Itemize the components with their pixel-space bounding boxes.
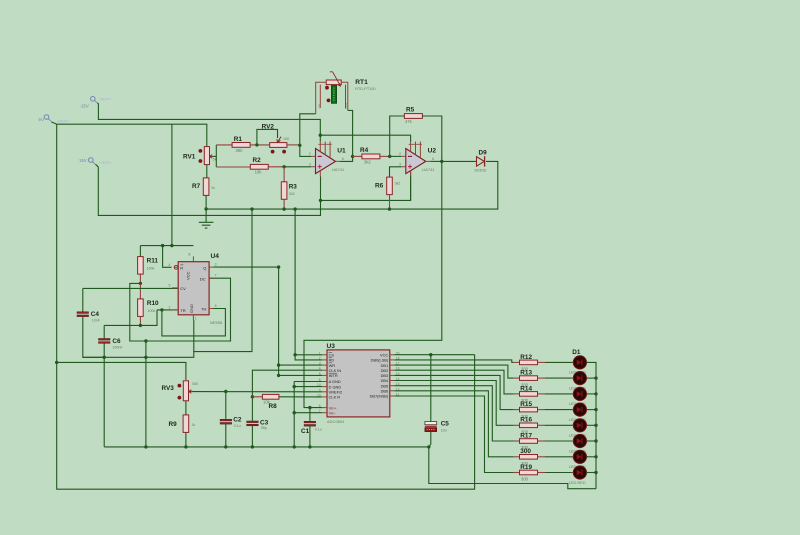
wire ladder row 1 left stub	[513, 361, 520, 363]
wire U2 plus input	[390, 167, 402, 178]
svg-text:RV1: RV1	[183, 154, 196, 161]
wire cathode bus segment 4	[595, 410, 597, 426]
wire C3 bottom lead	[251, 426, 253, 447]
wire VCC row	[394, 354, 474, 356]
wire R2 right to U1 plus	[268, 166, 285, 168]
capacitor C2	[220, 416, 242, 428]
wire R13 lead right	[538, 377, 546, 379]
junction R8/C3 on clock column	[251, 395, 254, 398]
wire R17 to LED 6	[545, 440, 573, 442]
wire ladder row 2 left stub	[513, 377, 520, 379]
svg-text:2: 2	[399, 152, 401, 156]
wire ladder row 6 left stub	[513, 440, 520, 442]
wire cathode bus segment 5	[595, 425, 597, 441]
wire CS to RD jog	[295, 355, 322, 360]
wire R16 lead right	[538, 424, 546, 426]
wire 5V tap to RV3	[57, 362, 186, 380]
wire analog ground column	[293, 382, 295, 447]
wire DB6 to ladder row 7	[394, 391, 513, 457]
resistor R7	[192, 178, 215, 196]
svg-text:R1: R1	[234, 136, 243, 143]
wire A GND line	[294, 381, 322, 383]
wire R12 to LED 1	[545, 361, 573, 363]
svg-text:3: 3	[309, 163, 311, 167]
wire INTR line	[279, 374, 323, 376]
svg-text:4: 4	[319, 367, 321, 371]
wire DB4 to ladder row 5	[394, 381, 513, 426]
wire R10 bottom to C6 column	[104, 324, 140, 326]
wire 5V rail horizontal	[51, 122, 207, 147]
wire R3 bottom	[283, 199, 285, 209]
svg-text:300: 300	[520, 448, 531, 455]
capacitor C6	[99, 338, 124, 350]
svg-text:3k2: 3k2	[364, 159, 371, 164]
wire R16 to LED 5	[545, 424, 573, 426]
wire DB7 to ladder row 8	[394, 396, 513, 473]
wire 5V to 555 supply	[171, 124, 173, 245]
wire RV1 bottom to R7	[206, 165, 208, 178]
junction cathode bus row 7	[594, 455, 597, 458]
svg-text:5V: 5V	[39, 117, 44, 122]
svg-text:100nF: 100nF	[112, 346, 123, 350]
potentiometer RV1	[183, 147, 217, 165]
wire R8 left lead	[252, 396, 262, 398]
svg-text:R13: R13	[520, 370, 532, 377]
resistor R10	[138, 299, 159, 317]
junction bus C2	[224, 445, 227, 448]
LED D2 LED-RED	[569, 372, 588, 391]
capacitor C5 electrolytic	[425, 421, 449, 433]
resistor R19 (ladder row 8)	[520, 464, 538, 482]
junction cathode bus row 5	[594, 424, 597, 427]
resistor R13 (ladder row 2)	[520, 370, 538, 388]
wire R10 bottom	[139, 316, 141, 325]
junction cathode bus row 8	[594, 471, 597, 474]
junction bus AGND col	[293, 445, 296, 448]
junction cathode bus row 2	[594, 376, 597, 379]
wire gnd drop to bus	[145, 341, 147, 447]
wire D9 to ground loop	[206, 161, 498, 209]
svg-text:10k: 10k	[255, 170, 263, 175]
IC U4 NE555	[169, 252, 224, 325]
svg-text:R7: R7	[192, 183, 201, 190]
wire LED 2 cathode to bus	[587, 377, 597, 379]
svg-text:2: 2	[309, 152, 311, 156]
wire C5 bottom lead	[429, 432, 431, 447]
LED D3 LED-RED	[569, 387, 588, 406]
wire DB1 to ladder row 2	[394, 365, 513, 378]
wire R10 top	[139, 283, 141, 298]
svg-text:R: R	[180, 266, 183, 271]
wire op-amp V- rail	[321, 171, 411, 201]
svg-text:6: 6	[215, 304, 217, 308]
resistor R4	[360, 147, 380, 164]
svg-text:U4: U4	[211, 253, 220, 260]
svg-text:6: 6	[342, 157, 344, 161]
svg-text:C4: C4	[91, 311, 100, 318]
svg-text:1k: 1k	[211, 186, 215, 190]
svg-text:LED-RED: LED-RED	[569, 481, 586, 485]
svg-text:R9: R9	[169, 421, 178, 428]
svg-text:R2: R2	[253, 157, 262, 164]
wire DB2 to ladder row 3	[394, 370, 513, 394]
junction C5 tap on VCC	[429, 353, 432, 356]
svg-text:2k2: 2k2	[289, 192, 295, 196]
wire node down to U1 inverting input	[300, 145, 311, 156]
op-amp U2 UA741	[399, 142, 436, 177]
wire U1 output	[340, 156, 353, 161]
wire ladder row 5 left stub	[513, 424, 520, 426]
junction RV2 loop left	[255, 143, 258, 146]
wire R19 to LED 8	[545, 472, 573, 474]
wire VIN- line	[294, 412, 322, 414]
svg-text:0.1u: 0.1u	[234, 424, 241, 428]
svg-text:1: 1	[195, 317, 197, 321]
junction bus R9	[184, 445, 187, 448]
svg-text:DC: DC	[200, 276, 206, 281]
junction RT1/R1/RV2 node	[298, 144, 301, 147]
wire LED 6 cathode to bus	[587, 440, 597, 442]
svg-text:0.1u: 0.1u	[315, 428, 322, 432]
svg-text:TH: TH	[201, 307, 206, 312]
svg-text:UA741: UA741	[332, 167, 345, 172]
wire C2 top lead	[225, 392, 227, 419]
junction R2/R3/U1+	[282, 165, 285, 168]
junction 209-line at CS column	[293, 207, 296, 210]
LED D6 LED-RED	[569, 434, 588, 453]
power terminal 15V	[79, 158, 112, 165]
junction bus C3	[251, 445, 254, 448]
wire R5 right to U2 output column	[422, 116, 442, 161]
junction U1 out / RT1 / R4	[351, 155, 354, 158]
wire RV2 right to node	[287, 144, 300, 146]
wire RT1 left pin down to R1 node	[300, 114, 316, 146]
svg-text:R8: R8	[269, 403, 278, 410]
wire R4 left lead	[353, 155, 363, 157]
junction U2 out / R5 / VIN+ column	[440, 160, 443, 163]
svg-text:UA741: UA741	[422, 167, 435, 172]
svg-text:6: 6	[432, 157, 434, 161]
svg-text:RT1: RT1	[355, 79, 368, 86]
wire gnd link 555	[83, 209, 252, 357]
svg-text:VCC: VCC	[185, 271, 190, 280]
svg-text:10nF: 10nF	[92, 318, 101, 322]
junction bus C5	[427, 445, 430, 448]
junction R7 ground	[204, 207, 207, 210]
wire C4 top lead	[82, 288, 84, 311]
wire cathode bus segment 2	[595, 378, 597, 394]
junction 209-line at R3	[282, 207, 285, 210]
svg-text:ADC0804: ADC0804	[327, 419, 345, 424]
wire feedback column R1-R2	[215, 145, 217, 167]
wire CS/RD ground column	[295, 209, 322, 355]
svg-text:NE555: NE555	[210, 320, 223, 325]
svg-text:U2: U2	[428, 148, 437, 155]
svg-text:C2: C2	[233, 416, 242, 423]
wire R6 bottom	[389, 195, 391, 210]
wire cathode bus bottom	[595, 473, 597, 489]
wire Q output	[214, 266, 279, 268]
svg-text:3k2: 3k2	[395, 182, 401, 186]
svg-text:TR: TR	[180, 308, 185, 313]
junction VCC rail 5V feed	[170, 244, 173, 247]
resistor R9	[169, 415, 196, 433]
svg-text:C5: C5	[441, 421, 450, 428]
wire R14 to LED 3	[545, 393, 573, 395]
svg-text:10u: 10u	[441, 429, 447, 433]
svg-text:<TEXT>: <TEXT>	[57, 120, 70, 124]
svg-text:R5: R5	[406, 106, 415, 113]
junction 209-line at x=252	[250, 207, 253, 210]
svg-text:INTR: INTR	[329, 373, 338, 378]
svg-text:U1: U1	[337, 148, 346, 155]
wire DB3 to ladder row 4	[394, 375, 513, 409]
wire LED 8 cathode to bus	[587, 472, 597, 474]
LED D7 LED-RED	[569, 450, 588, 469]
power terminal -15V	[80, 97, 112, 109]
junction R4/R5/U2-	[388, 155, 391, 158]
svg-text:VIn-: VIn-	[329, 410, 337, 415]
op-amp U1 UA741	[309, 142, 346, 177]
svg-text:R17: R17	[520, 432, 532, 439]
wire C6 bottom lead	[103, 344, 105, 447]
resistor 300 (ladder row 7)	[520, 448, 538, 466]
svg-text:100: 100	[283, 137, 289, 141]
svg-text:390: 390	[236, 148, 244, 153]
wire Q to WR/INTR	[278, 267, 280, 375]
wire C5 top lead	[430, 355, 432, 422]
resistor R14 (ladder row 3)	[520, 385, 538, 403]
wire bus to LED return	[429, 447, 596, 489]
svg-text:CV: CV	[180, 286, 186, 291]
junction R10 bottom	[139, 324, 142, 327]
svg-text:R19: R19	[520, 464, 532, 471]
LED D5 LED-RED	[569, 419, 588, 438]
svg-text:R10: R10	[147, 300, 159, 307]
wire R13 to LED 2	[545, 377, 573, 379]
wire C4 bottom lead	[83, 317, 104, 358]
svg-text:500: 500	[192, 382, 198, 386]
junction WR tap	[277, 363, 280, 366]
junction cathode bus row 3	[594, 392, 597, 395]
junction 5V tap	[55, 361, 58, 364]
ground symbol near R7	[199, 209, 214, 228]
wire RT1 right pin down to U1 output node	[348, 110, 353, 156]
wire to U1 non-inverting input	[284, 166, 311, 168]
svg-text:15V: 15V	[79, 158, 87, 163]
wire cathode bus segment 3	[595, 394, 597, 410]
wire LED cathode bus top	[587, 362, 597, 378]
svg-text:<TEXT>: <TEXT>	[99, 161, 112, 165]
svg-text:R12: R12	[520, 354, 532, 361]
wire ladder row 8 left stub	[513, 472, 520, 474]
svg-text:D9: D9	[479, 150, 488, 157]
wire R19 lead right	[538, 472, 546, 474]
wire discharge link	[130, 278, 231, 341]
wire -15V rail	[97, 103, 410, 142]
wire R10 bottom to TR	[140, 310, 157, 326]
wire 5V left bus vertical	[57, 124, 475, 489]
svg-text:CLK R: CLK R	[329, 395, 341, 400]
svg-text:3: 3	[215, 263, 217, 267]
svg-text:-15V: -15V	[80, 104, 89, 109]
wire CLK IN line	[252, 370, 322, 421]
wire 15V feed	[95, 164, 320, 215]
LED D1 LED-RED	[569, 356, 588, 375]
wire R8 right to CLK R	[279, 396, 322, 398]
wire R3 top lead	[283, 167, 285, 183]
svg-text:56p: 56p	[261, 426, 267, 430]
svg-text:GND: GND	[189, 304, 194, 313]
wire R15 to LED 4	[545, 409, 573, 411]
resistor R3	[281, 182, 297, 200]
svg-text:VIN: VIN	[318, 104, 322, 109]
wire R17 lead right	[538, 440, 546, 442]
svg-text:3: 3	[399, 163, 401, 167]
svg-text:19: 19	[317, 393, 321, 397]
junction cathode bus row 6	[594, 439, 597, 442]
junction TR tie	[160, 308, 163, 311]
junction C2 tap	[224, 390, 227, 393]
wire WR line	[279, 364, 323, 366]
wire R5 left vertical	[390, 116, 405, 156]
resistor R1	[232, 136, 250, 153]
LED D4 LED-RED	[569, 403, 588, 422]
svg-text:R3: R3	[289, 183, 298, 190]
wire C2 bottom lead	[225, 424, 227, 447]
wire U2 output	[430, 160, 442, 162]
wire R7 bottom to ground line	[205, 196, 207, 209]
junction U1 pin4 rail	[319, 199, 322, 202]
wire TR-TH tie	[162, 309, 226, 336]
wire U2 out to D9	[442, 160, 477, 162]
wire RV3 bottom to R9	[185, 401, 187, 415]
wire C1 top lead	[309, 408, 311, 422]
svg-text:R16: R16	[520, 417, 532, 424]
junction R6 bottom	[388, 207, 391, 210]
svg-text:R6: R6	[375, 182, 384, 189]
wire cathode bus segment 6	[595, 441, 597, 457]
svg-text:U3: U3	[327, 343, 336, 350]
wire R11 bottom	[139, 274, 141, 283]
svg-text:DB7(MSB): DB7(MSB)	[370, 394, 389, 399]
capacitor C1	[301, 421, 322, 435]
wire LED 3 cathode to bus	[587, 393, 597, 395]
junction bus C1	[308, 445, 311, 448]
wire RV3 wiper to VREF/2	[192, 391, 322, 393]
wire TR line	[157, 309, 178, 311]
wire ladder row 4 left stub	[513, 409, 520, 411]
power terminal 5V	[39, 115, 70, 124]
svg-text:<TEXT>: <TEXT>	[99, 98, 112, 102]
resistor R5	[404, 106, 422, 124]
svg-text:Q: Q	[203, 265, 206, 270]
svg-text:1k: 1k	[192, 423, 196, 427]
potentiometer RV2	[262, 124, 289, 154]
svg-text:9: 9	[319, 388, 321, 392]
junction R11/R10/discharge	[139, 282, 142, 285]
svg-text:5: 5	[169, 283, 171, 287]
svg-text:R14: R14	[520, 385, 532, 392]
wire 300 lead right	[538, 456, 546, 458]
wire U2 pin4 down	[410, 177, 412, 201]
svg-text:R11: R11	[147, 258, 159, 265]
svg-text:C6: C6	[112, 338, 121, 345]
svg-text:OUT: OUT	[345, 102, 349, 108]
wire LED 7 cathode to bus	[587, 456, 597, 458]
svg-text:47k: 47k	[405, 119, 413, 124]
svg-text:8: 8	[189, 252, 191, 256]
wire DB0 to ladder row 1	[394, 360, 513, 363]
wire 300 to LED 7	[545, 456, 573, 458]
wire R4 right lead	[379, 155, 390, 157]
svg-text:DIODE: DIODE	[475, 169, 487, 173]
svg-text:300: 300	[521, 477, 529, 482]
wire ladder row 3 left stub	[513, 393, 520, 395]
wire cathode bus segment 7	[595, 457, 597, 473]
LED D8 LED-RED	[569, 466, 588, 485]
sensor RT1 RTD-PT100	[316, 72, 376, 114]
capacitor C3	[247, 420, 269, 431]
wire D GND line	[294, 386, 322, 388]
wire to U2 inverting input	[390, 155, 402, 157]
wire VCC rail of 555	[140, 245, 193, 247]
junction -15V rail at U1 pin7	[319, 134, 322, 137]
wire RV2 bypass loop	[257, 129, 278, 145]
IC U3 ADC0804	[317, 343, 400, 424]
junction cathode bus row 4	[594, 408, 597, 411]
diode D9	[475, 150, 488, 173]
wire R2 row left	[216, 166, 251, 168]
junction C1 on VIN+	[308, 406, 311, 409]
svg-text:10k: 10k	[263, 400, 271, 405]
svg-text:7: 7	[215, 274, 217, 278]
resistor R17 (ladder row 6)	[520, 432, 538, 450]
capacitor C4	[77, 311, 101, 323]
svg-text:RV2: RV2	[262, 124, 275, 131]
wire R11 top lead	[139, 246, 141, 257]
resistor R15 (ladder row 4)	[520, 401, 538, 419]
svg-text:RV3: RV3	[162, 385, 175, 392]
resistor R16 (ladder row 5)	[520, 417, 538, 435]
wire R9 bottom	[185, 432, 187, 447]
wire C1 bottom lead	[309, 426, 311, 447]
wire R14 lead right	[538, 393, 546, 395]
wire R12 lead right	[538, 361, 546, 363]
junction CS tie	[293, 353, 296, 356]
resistor R11	[138, 257, 159, 275]
svg-text:RTD-PT100: RTD-PT100	[355, 87, 375, 91]
junction INTR tap	[277, 374, 280, 377]
svg-text:100k: 100k	[147, 266, 155, 270]
wire U4 gnd column	[193, 320, 195, 352]
resistor R6	[375, 177, 400, 195]
junction VCC rail reset tap	[161, 244, 164, 247]
wire ground bus	[104, 446, 429, 448]
wire reset tap	[163, 246, 172, 268]
resistor R12 (ladder row 1)	[520, 354, 538, 372]
svg-text:R4: R4	[360, 147, 369, 154]
wire ladder row 7 left stub	[513, 456, 520, 458]
svg-text:C1: C1	[301, 428, 310, 435]
svg-text:R15: R15	[520, 401, 532, 408]
svg-text:100k: 100k	[148, 309, 156, 313]
wire U2 out to VIN+	[304, 161, 442, 407]
wire R1 to RV2	[250, 144, 270, 146]
wire U1 pin4 down to V- rail	[320, 177, 322, 201]
potentiometer RV3	[162, 381, 199, 401]
junction VIN- tie	[293, 411, 296, 414]
